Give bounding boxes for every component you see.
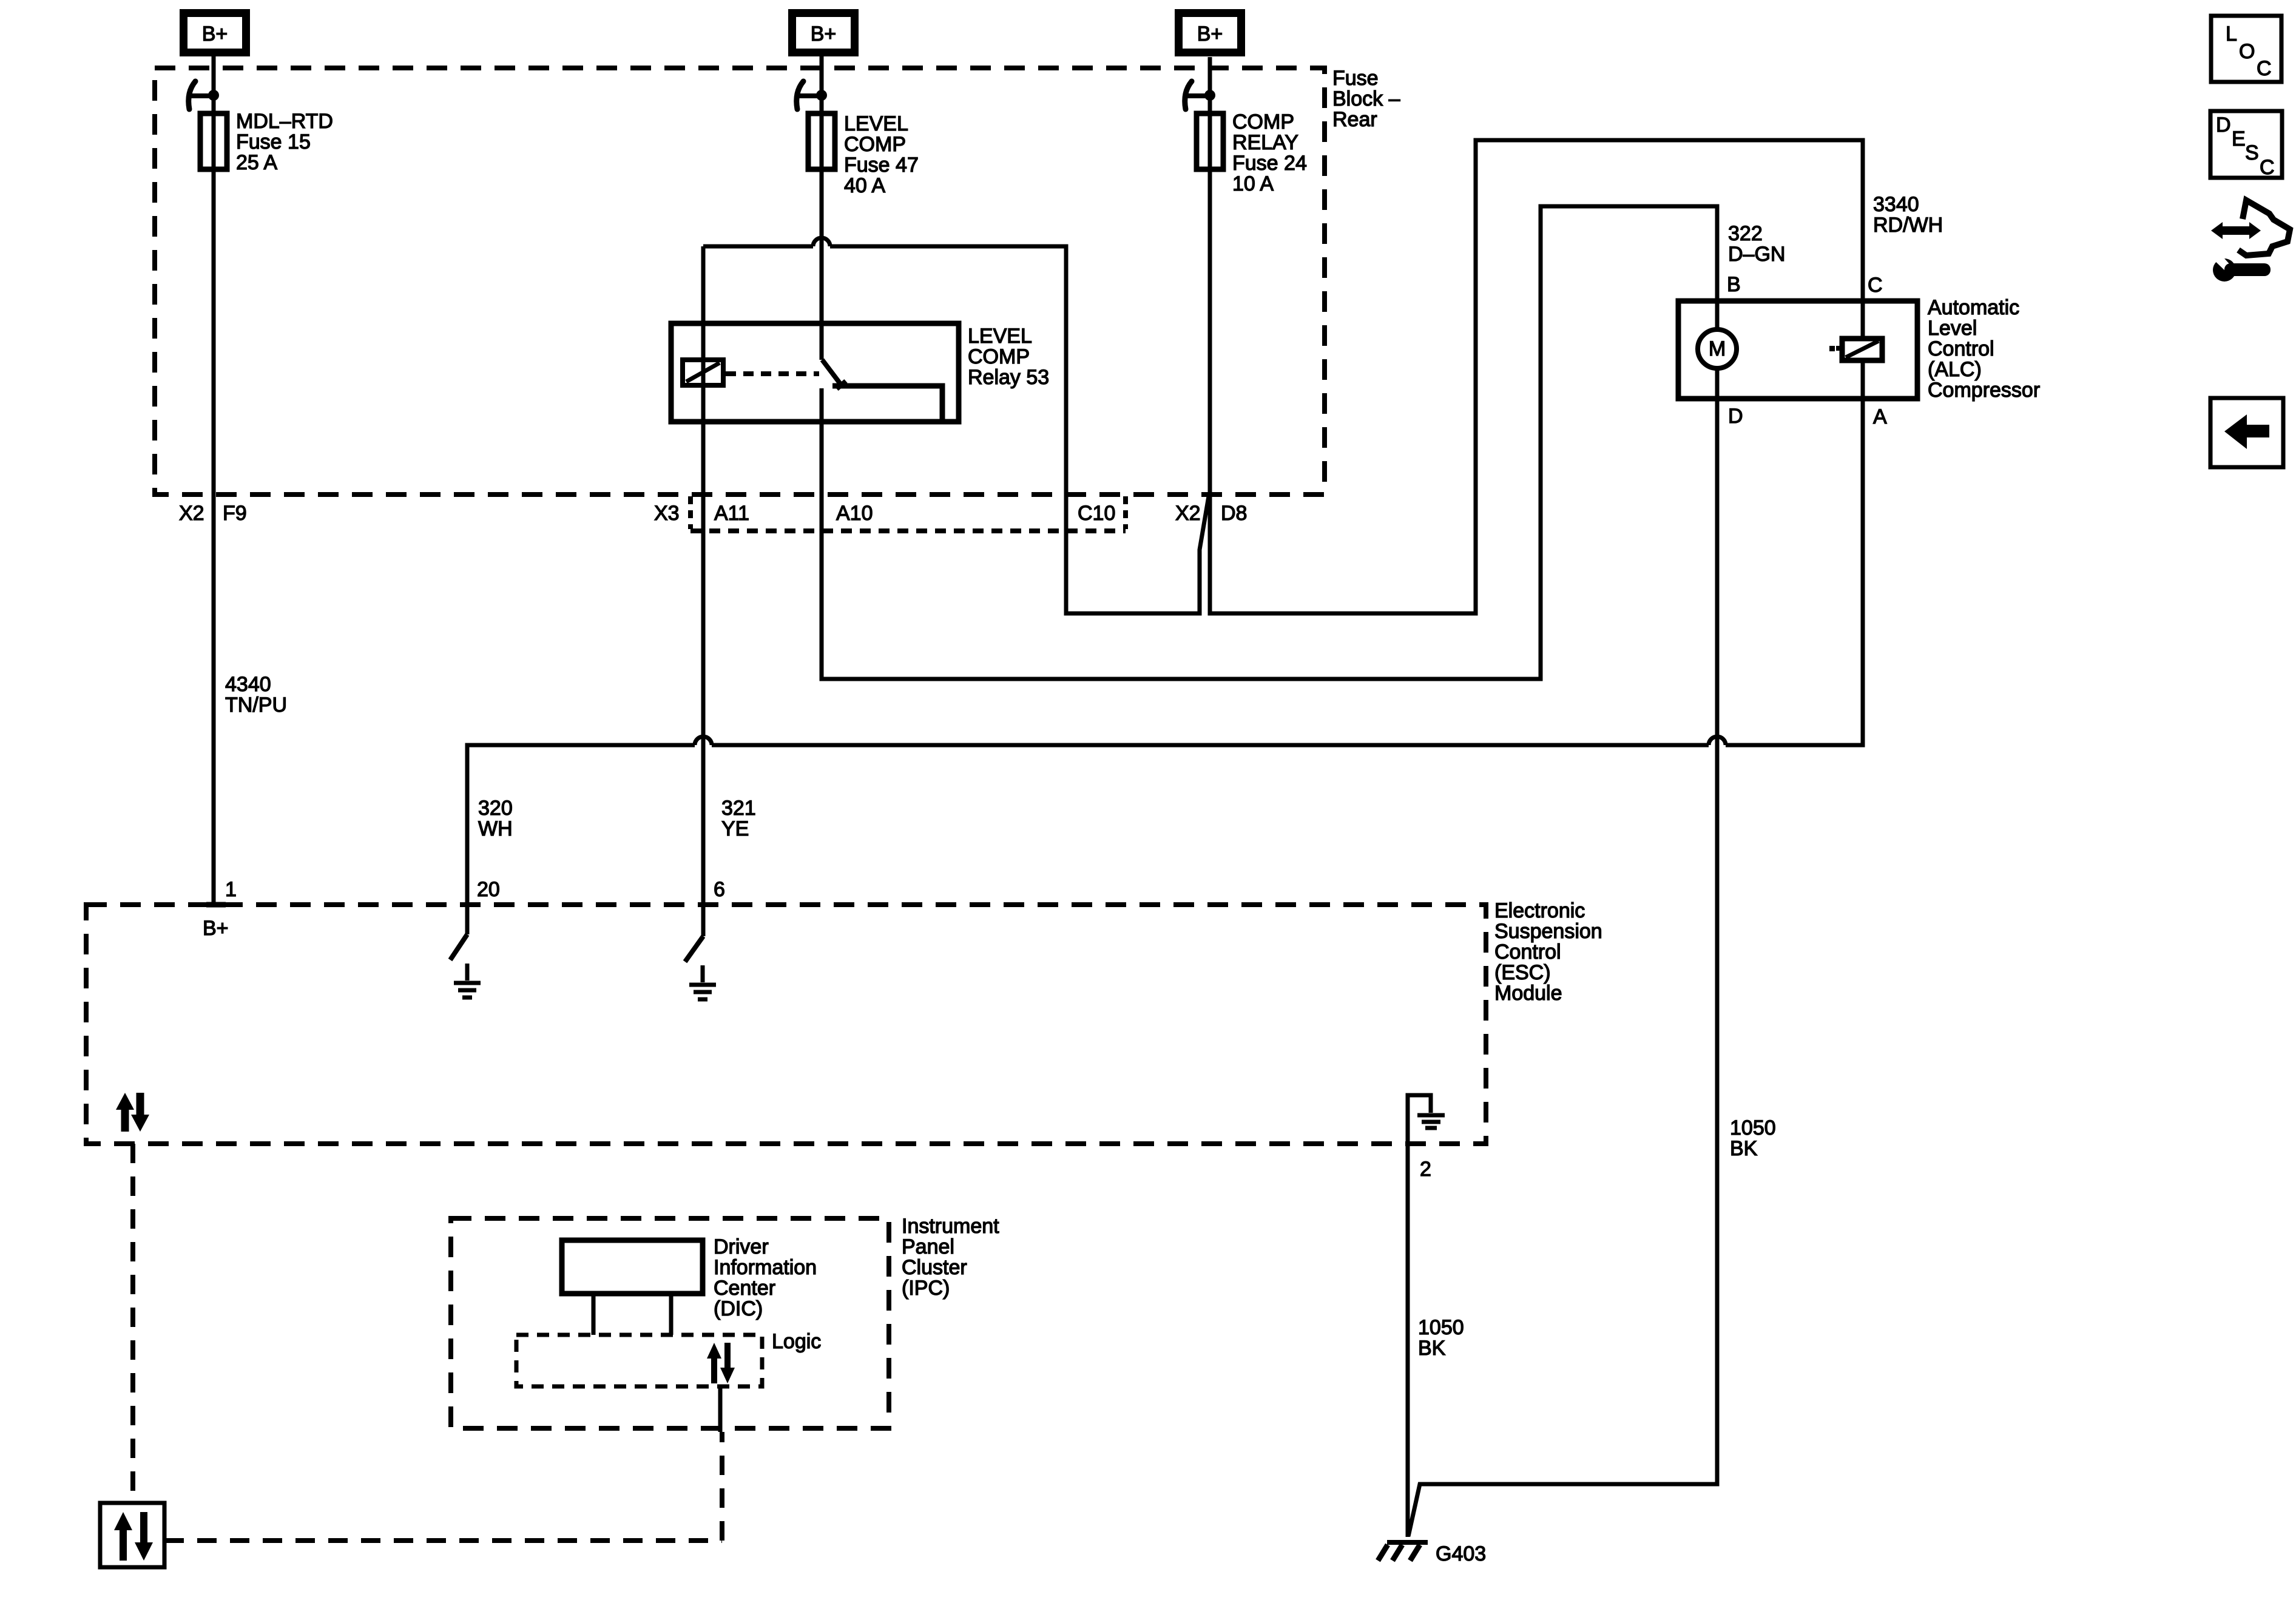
svg-text:40 A: 40 A <box>844 174 885 197</box>
svg-text:A10: A10 <box>836 502 873 525</box>
svg-text:1050: 1050 <box>1730 1116 1776 1139</box>
svg-text:RELAY: RELAY <box>1232 131 1298 154</box>
svg-text:10 A: 10 A <box>1232 172 1274 195</box>
svg-text:A: A <box>1873 405 1887 428</box>
svg-text:C10: C10 <box>1078 502 1115 525</box>
svg-text:D: D <box>1728 405 1743 428</box>
svg-text:Driver: Driver <box>714 1235 769 1258</box>
svg-text:Relay 53: Relay 53 <box>968 366 1049 389</box>
svg-text:Module: Module <box>1494 982 1562 1005</box>
svg-text:LEVEL: LEVEL <box>844 112 908 135</box>
svg-text:Center: Center <box>714 1277 775 1300</box>
svg-text:C: C <box>1868 274 1883 297</box>
svg-text:Electronic: Electronic <box>1494 899 1585 922</box>
svg-text:(IPC): (IPC) <box>902 1277 950 1300</box>
svg-text:Information: Information <box>714 1256 817 1279</box>
svg-text:25 A: 25 A <box>236 151 277 174</box>
svg-text:F9: F9 <box>223 502 247 525</box>
svg-text:322: 322 <box>1728 222 1763 245</box>
svg-text:321: 321 <box>721 797 756 820</box>
svg-text:(DIC): (DIC) <box>714 1297 763 1320</box>
svg-text:Control: Control <box>1494 940 1561 964</box>
svg-text:Compressor: Compressor <box>1928 379 2040 402</box>
svg-text:RD/WH: RD/WH <box>1873 214 1943 237</box>
svg-text:G403: G403 <box>1436 1542 1486 1565</box>
svg-text:2: 2 <box>1420 1158 1431 1181</box>
svg-text:Panel: Panel <box>902 1235 954 1258</box>
svg-text:WH: WH <box>478 817 513 840</box>
svg-text:Fuse 24: Fuse 24 <box>1232 152 1307 175</box>
svg-text:Fuse 15: Fuse 15 <box>236 130 311 154</box>
svg-text:Level: Level <box>1928 317 1977 340</box>
svg-text:X2: X2 <box>1175 502 1201 525</box>
svg-text:C: C <box>2257 57 2272 80</box>
svg-text:LEVEL: LEVEL <box>968 325 1032 348</box>
svg-text:YE: YE <box>721 817 749 840</box>
svg-text:Control: Control <box>1928 337 1994 360</box>
svg-text:Rear: Rear <box>1332 108 1377 131</box>
svg-text:M: M <box>1709 337 1726 360</box>
svg-text:1050: 1050 <box>1418 1316 1464 1339</box>
svg-text:TN/PU: TN/PU <box>225 694 287 717</box>
svg-text:COMP: COMP <box>968 345 1030 368</box>
svg-text:4340: 4340 <box>225 673 271 696</box>
svg-text:D8: D8 <box>1221 502 1247 525</box>
svg-text:C: C <box>2260 156 2275 179</box>
svg-text:Instrument: Instrument <box>902 1215 999 1238</box>
svg-text:(ALC): (ALC) <box>1928 358 1982 381</box>
svg-text:Fuse: Fuse <box>1332 67 1379 90</box>
svg-text:Suspension: Suspension <box>1494 920 1602 943</box>
svg-text:COMP: COMP <box>1232 110 1294 133</box>
svg-text:BK: BK <box>1730 1137 1758 1160</box>
svg-text:A11: A11 <box>714 502 749 525</box>
svg-text:320: 320 <box>478 797 513 820</box>
svg-text:B+: B+ <box>1197 22 1223 46</box>
svg-text:D–GN: D–GN <box>1728 243 1785 266</box>
svg-text:O: O <box>2239 40 2255 63</box>
svg-text:B+: B+ <box>811 22 837 46</box>
svg-text:6: 6 <box>714 878 725 901</box>
svg-text:20: 20 <box>477 878 500 901</box>
svg-text:Block –: Block – <box>1332 87 1400 110</box>
svg-text:B: B <box>1727 273 1741 296</box>
svg-text:(ESC): (ESC) <box>1494 961 1551 984</box>
svg-text:X3: X3 <box>654 502 680 525</box>
svg-text:E: E <box>2232 127 2246 150</box>
svg-text:D: D <box>2216 113 2231 137</box>
svg-text:Cluster: Cluster <box>902 1256 967 1279</box>
svg-text:3340: 3340 <box>1873 193 1919 216</box>
svg-text:Automatic: Automatic <box>1928 296 2019 319</box>
svg-text:B+: B+ <box>203 917 229 940</box>
svg-text:B+: B+ <box>202 22 228 46</box>
svg-text:COMP: COMP <box>844 133 906 156</box>
svg-text:Logic: Logic <box>772 1330 821 1353</box>
svg-text:X2: X2 <box>179 502 204 525</box>
svg-text:BK: BK <box>1418 1337 1446 1360</box>
svg-text:S: S <box>2245 141 2259 164</box>
svg-text:1: 1 <box>225 878 237 901</box>
svg-text:MDL–RTD: MDL–RTD <box>236 110 333 133</box>
svg-text:Fuse 47: Fuse 47 <box>844 154 919 177</box>
svg-text:L: L <box>2226 22 2237 46</box>
